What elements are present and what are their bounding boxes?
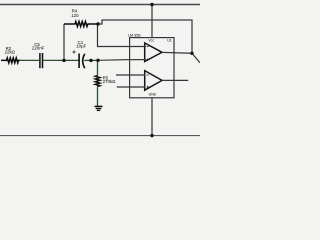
- resistor R2: [1, 46, 20, 63]
- capacitor C5: [32, 42, 45, 68]
- ground rail: [0, 135, 200, 137]
- svg-text:U1: U1: [167, 38, 172, 42]
- VCC rail: [0, 4, 200, 6]
- node R5 top junction: [96, 59, 99, 62]
- node op-amp1 output junction: [190, 52, 193, 55]
- wire output op-amp1: [162, 51, 192, 54]
- svg-text:22kΩ: 22kΩ: [5, 50, 16, 55]
- node VCC junction: [150, 3, 153, 6]
- resistor R4: [64, 9, 98, 27]
- svg-text:270kΩ: 270kΩ: [103, 79, 117, 84]
- svg-text:120: 120: [71, 13, 79, 18]
- wire R5 to ground: [97, 86, 99, 106]
- wire C1 to node: [84, 59, 98, 61]
- node R4 left junction: [62, 59, 65, 62]
- node ground rail junction: [150, 134, 153, 137]
- svg-text:LM 358: LM 358: [128, 33, 141, 37]
- op-amp U1: [128, 33, 174, 97]
- wire node to R5: [97, 60, 99, 75]
- svg-text:10µF: 10µF: [76, 44, 86, 49]
- node R4 right junction: [96, 22, 99, 25]
- node C1 output junction: [89, 59, 92, 62]
- wire node to in2: [98, 59, 146, 62]
- capacitor C1: [73, 40, 87, 68]
- ground: [95, 106, 103, 110]
- svg-text:GND: GND: [149, 92, 157, 96]
- wire VCC pin drop: [151, 5, 153, 38]
- wire output op-amp2 stub: [162, 79, 188, 81]
- wire feedback loop: [98, 20, 200, 63]
- wire to in1: [98, 24, 147, 47]
- wire C5 to C1: [43, 59, 78, 61]
- resistor R5: [95, 75, 116, 86]
- svg-text:220nF: 220nF: [32, 45, 45, 50]
- wire input signal: [19, 59, 39, 61]
- svg-text:Vcc: Vcc: [148, 39, 154, 43]
- wire GND pin drop: [151, 98, 153, 136]
- pin stub in2-: [117, 86, 145, 88]
- pin stub in2+: [116, 74, 145, 76]
- wire R4 left leg vertical: [63, 24, 65, 60]
